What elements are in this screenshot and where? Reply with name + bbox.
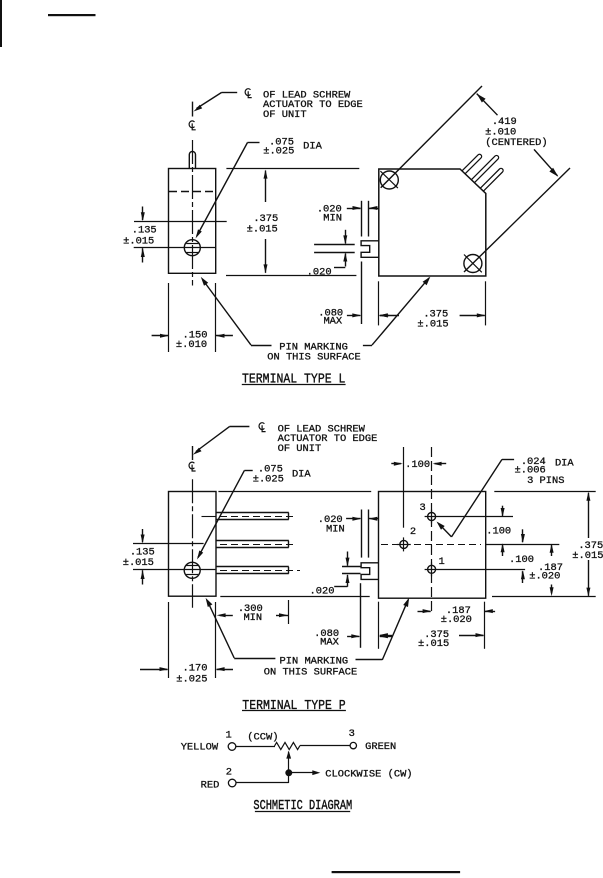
svg-text:.100: .100 bbox=[509, 554, 534, 566]
dimension .020 MIN (P pin gap) bbox=[346, 518, 360, 520]
dimension .100 (pins 2-1 vertical) bbox=[522, 529, 524, 542]
dimension .375 +/-.015 (P front height) bbox=[586, 492, 590, 501]
TYPE L front view body with chamfer bbox=[379, 169, 486, 276]
resistor R (potentiometer element) bbox=[275, 742, 301, 749]
note PIN MARKING ON THIS SURFACE (P) bbox=[206, 598, 213, 607]
TYPE P leader note: centerline of lead screw actuator bbox=[192, 446, 194, 460]
TYPE P side view body bbox=[169, 492, 217, 597]
front view top extension line bbox=[218, 491, 371, 493]
junction node bbox=[286, 770, 292, 776]
TYPE P terminal pin 3 (side view) bbox=[216, 566, 289, 568]
clockwise direction arrow bbox=[312, 770, 320, 775]
svg-text:3 PINS: 3 PINS bbox=[527, 475, 564, 487]
dimension .100 (pins 3-2 vertical) bbox=[502, 506, 504, 517]
leader .075 +/-.025 DIA (P lead screw dia) bbox=[244, 470, 252, 472]
TYPE P terminal pin 1 (side view) bbox=[202, 516, 216, 518]
TYPE P vertical centerline bbox=[192, 479, 194, 608]
svg-text:CLOCKWISE (CW): CLOCKWISE (CW) bbox=[325, 769, 412, 781]
svg-text:3: 3 bbox=[349, 728, 355, 740]
svg-text:MIN: MIN bbox=[326, 523, 345, 535]
TYPE L profile: pin standoff lines bbox=[361, 201, 363, 237]
svg-text:(CCW): (CCW) bbox=[247, 732, 278, 744]
svg-text:MIN: MIN bbox=[323, 213, 342, 225]
pin 3 (P front view) bbox=[428, 513, 436, 521]
dimension .419 +/-.010 CENTERED (diagonal) bbox=[381, 86, 482, 188]
dimension .187 +/-.020 (pin 2 to bottom) bbox=[550, 544, 554, 553]
leader .024 +/-.006 DIA 3 PINS bbox=[437, 522, 445, 530]
TYPE P profile: pin standoff lines bbox=[361, 510, 363, 558]
svg-text:MAX: MAX bbox=[320, 637, 339, 649]
TYPE L pin edge lines bbox=[314, 244, 355, 246]
svg-text:GREEN: GREEN bbox=[365, 741, 396, 753]
dimension .080 MAX (L pin standoff) bbox=[347, 315, 360, 317]
svg-text:DIA: DIA bbox=[555, 457, 574, 469]
svg-text:±.015: ±.015 bbox=[417, 319, 448, 331]
wire terminal 2 to junction bbox=[236, 782, 289, 784]
svg-text:±.025: ±.025 bbox=[263, 146, 294, 158]
footer rule line bbox=[332, 871, 461, 873]
svg-text:±.020: ±.020 bbox=[441, 614, 472, 626]
dimension .135 +/-.015 (P side view) bbox=[133, 543, 204, 545]
dimension .020 (L pin thickness) bbox=[345, 230, 347, 244]
wire terminal1 to resistor bbox=[236, 746, 275, 748]
TYPE L side view hidden line bbox=[169, 191, 215, 193]
TYPE L lead screw actuator tip bbox=[189, 152, 195, 170]
wire junction to CW arrow bbox=[289, 772, 313, 774]
svg-text:DIA: DIA bbox=[292, 469, 311, 481]
svg-text:±.015: ±.015 bbox=[418, 638, 449, 650]
wire resistor to terminal 3 bbox=[300, 745, 350, 747]
dimension .020 (P pin thickness) bbox=[347, 552, 349, 566]
svg-text:±.025: ±.025 bbox=[253, 474, 284, 486]
svg-text:DIA: DIA bbox=[303, 141, 322, 153]
TYPE L mounting hole top-left with X bbox=[380, 171, 398, 189]
TYPE P terminal pin 2 (side view) bbox=[216, 540, 289, 542]
svg-text:ON THIS SURFACE: ON THIS SURFACE bbox=[264, 666, 358, 678]
svg-text:YELLOW: YELLOW bbox=[181, 742, 219, 754]
dimension .080 MAX (P pin standoff) bbox=[347, 636, 359, 638]
dimension .375 +/-.015 (L height, between views) bbox=[226, 168, 359, 170]
TYPE P pin extension line below notch bbox=[360, 583, 362, 648]
svg-text:±.010: ±.010 bbox=[176, 339, 207, 351]
svg-text:±.015: ±.015 bbox=[247, 223, 278, 235]
svg-text:OF UNIT: OF UNIT bbox=[263, 109, 307, 121]
svg-text:1: 1 bbox=[225, 729, 231, 741]
TYPE P centerline symbol above side view bbox=[189, 462, 194, 469]
svg-text:RED: RED bbox=[201, 779, 220, 791]
front view bottom extension line bbox=[220, 596, 369, 598]
page corner mark (left edge bar) bbox=[0, 0, 2, 47]
svg-text:±.015: ±.015 bbox=[572, 550, 603, 562]
terminal 3 GREEN bbox=[350, 742, 356, 748]
dimension .300 MIN (P pin length) bbox=[215, 602, 217, 678]
svg-text:1: 1 bbox=[438, 556, 444, 568]
svg-text:±.015: ±.015 bbox=[123, 557, 154, 569]
TYPE L mounting hole bottom-right with X bbox=[464, 255, 482, 273]
TYPE L pin cross-section notch bbox=[361, 241, 379, 257]
wiper arrow bbox=[286, 751, 291, 759]
dimension .170 +/-.025 (P side view width) bbox=[168, 602, 170, 678]
svg-text:±.020: ±.020 bbox=[529, 571, 560, 583]
dimension .135 +/-.015 (L side view) bbox=[134, 221, 227, 223]
pin 2 (P front view) bbox=[400, 540, 408, 548]
svg-text:2: 2 bbox=[226, 767, 232, 779]
TYPE P front view body bbox=[379, 492, 486, 599]
svg-text:ON THIS SURFACE: ON THIS SURFACE bbox=[267, 352, 361, 364]
svg-text:.020: .020 bbox=[307, 267, 332, 279]
pin 1 (P front view) bbox=[428, 565, 436, 573]
dimension .150 +/-.010 (L side view width) bbox=[168, 283, 170, 352]
svg-text:±.015: ±.015 bbox=[123, 236, 154, 248]
leader .075 +/-.025 DIA (lead screw dia) bbox=[248, 142, 260, 144]
TYPE L pin extension line below notch bbox=[361, 262, 363, 325]
TYPE P pin cross-section notch bbox=[361, 563, 379, 580]
TYPE L lead screw circle bbox=[184, 240, 200, 256]
svg-text:OF UNIT: OF UNIT bbox=[278, 443, 322, 455]
svg-text:MAX: MAX bbox=[323, 315, 342, 327]
svg-text:2: 2 bbox=[410, 526, 416, 538]
header rule line bbox=[48, 14, 96, 16]
svg-text:3: 3 bbox=[419, 502, 425, 514]
svg-text:MIN: MIN bbox=[243, 612, 262, 624]
TYPE L leader note: centerline of lead screw actuator bbox=[192, 102, 194, 117]
dimension .375 +/-.015 (L front width) bbox=[378, 281, 380, 325]
svg-text:±.025: ±.025 bbox=[176, 673, 207, 685]
TYPE L centerline symbol above side view bbox=[189, 121, 194, 128]
dimension .375 +/-.015 (P front width, bottom) bbox=[378, 602, 380, 649]
TYPE P lead screw circle bbox=[184, 562, 200, 578]
svg-text:(CENTERED): (CENTERED) bbox=[485, 137, 547, 149]
TYPE L side view body bbox=[169, 169, 216, 274]
TYPE L vertical centerline bbox=[192, 140, 194, 286]
dimension .020 MIN (L pin gap) bbox=[347, 208, 361, 210]
TYPE L terminal pins at chamfer bbox=[462, 154, 482, 174]
svg-text:.100: .100 bbox=[486, 526, 511, 538]
note PIN MARKING ON THIS SURFACE (L) bbox=[201, 277, 208, 286]
TYPE P pin edge lines bbox=[342, 566, 361, 568]
dimension .187 +/-.020 (pin column to edge, bottom) bbox=[484, 602, 486, 649]
svg-text:.100: .100 bbox=[405, 459, 430, 471]
dimension .100 (pin column spacing, top) bbox=[403, 447, 405, 528]
